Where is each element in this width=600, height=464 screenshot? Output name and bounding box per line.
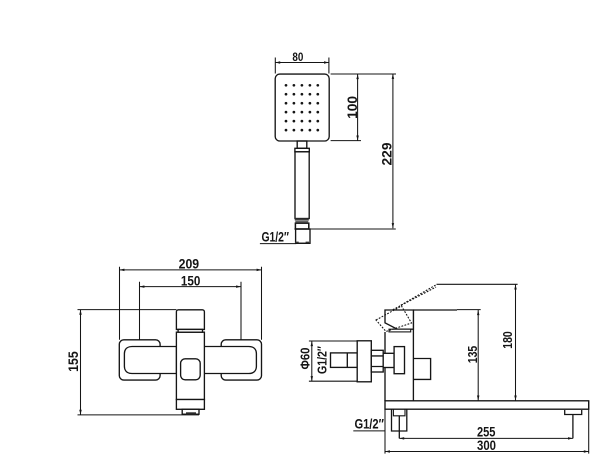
- svg-text:80: 80: [292, 50, 303, 64]
- svg-text:155: 155: [65, 351, 81, 372]
- svg-text:150: 150: [181, 272, 201, 288]
- svg-text:135: 135: [465, 346, 480, 364]
- svg-text:300: 300: [477, 438, 496, 453]
- svg-text:100: 100: [345, 96, 360, 119]
- svg-text:G1/2″: G1/2″: [261, 230, 289, 245]
- svg-text:229: 229: [380, 143, 395, 166]
- svg-text:G1/2″: G1/2″: [315, 346, 330, 374]
- svg-text:209: 209: [179, 256, 200, 272]
- svg-text:G1/2″: G1/2″: [354, 416, 384, 431]
- svg-text:180: 180: [500, 331, 515, 349]
- svg-text:Φ60: Φ60: [299, 347, 313, 369]
